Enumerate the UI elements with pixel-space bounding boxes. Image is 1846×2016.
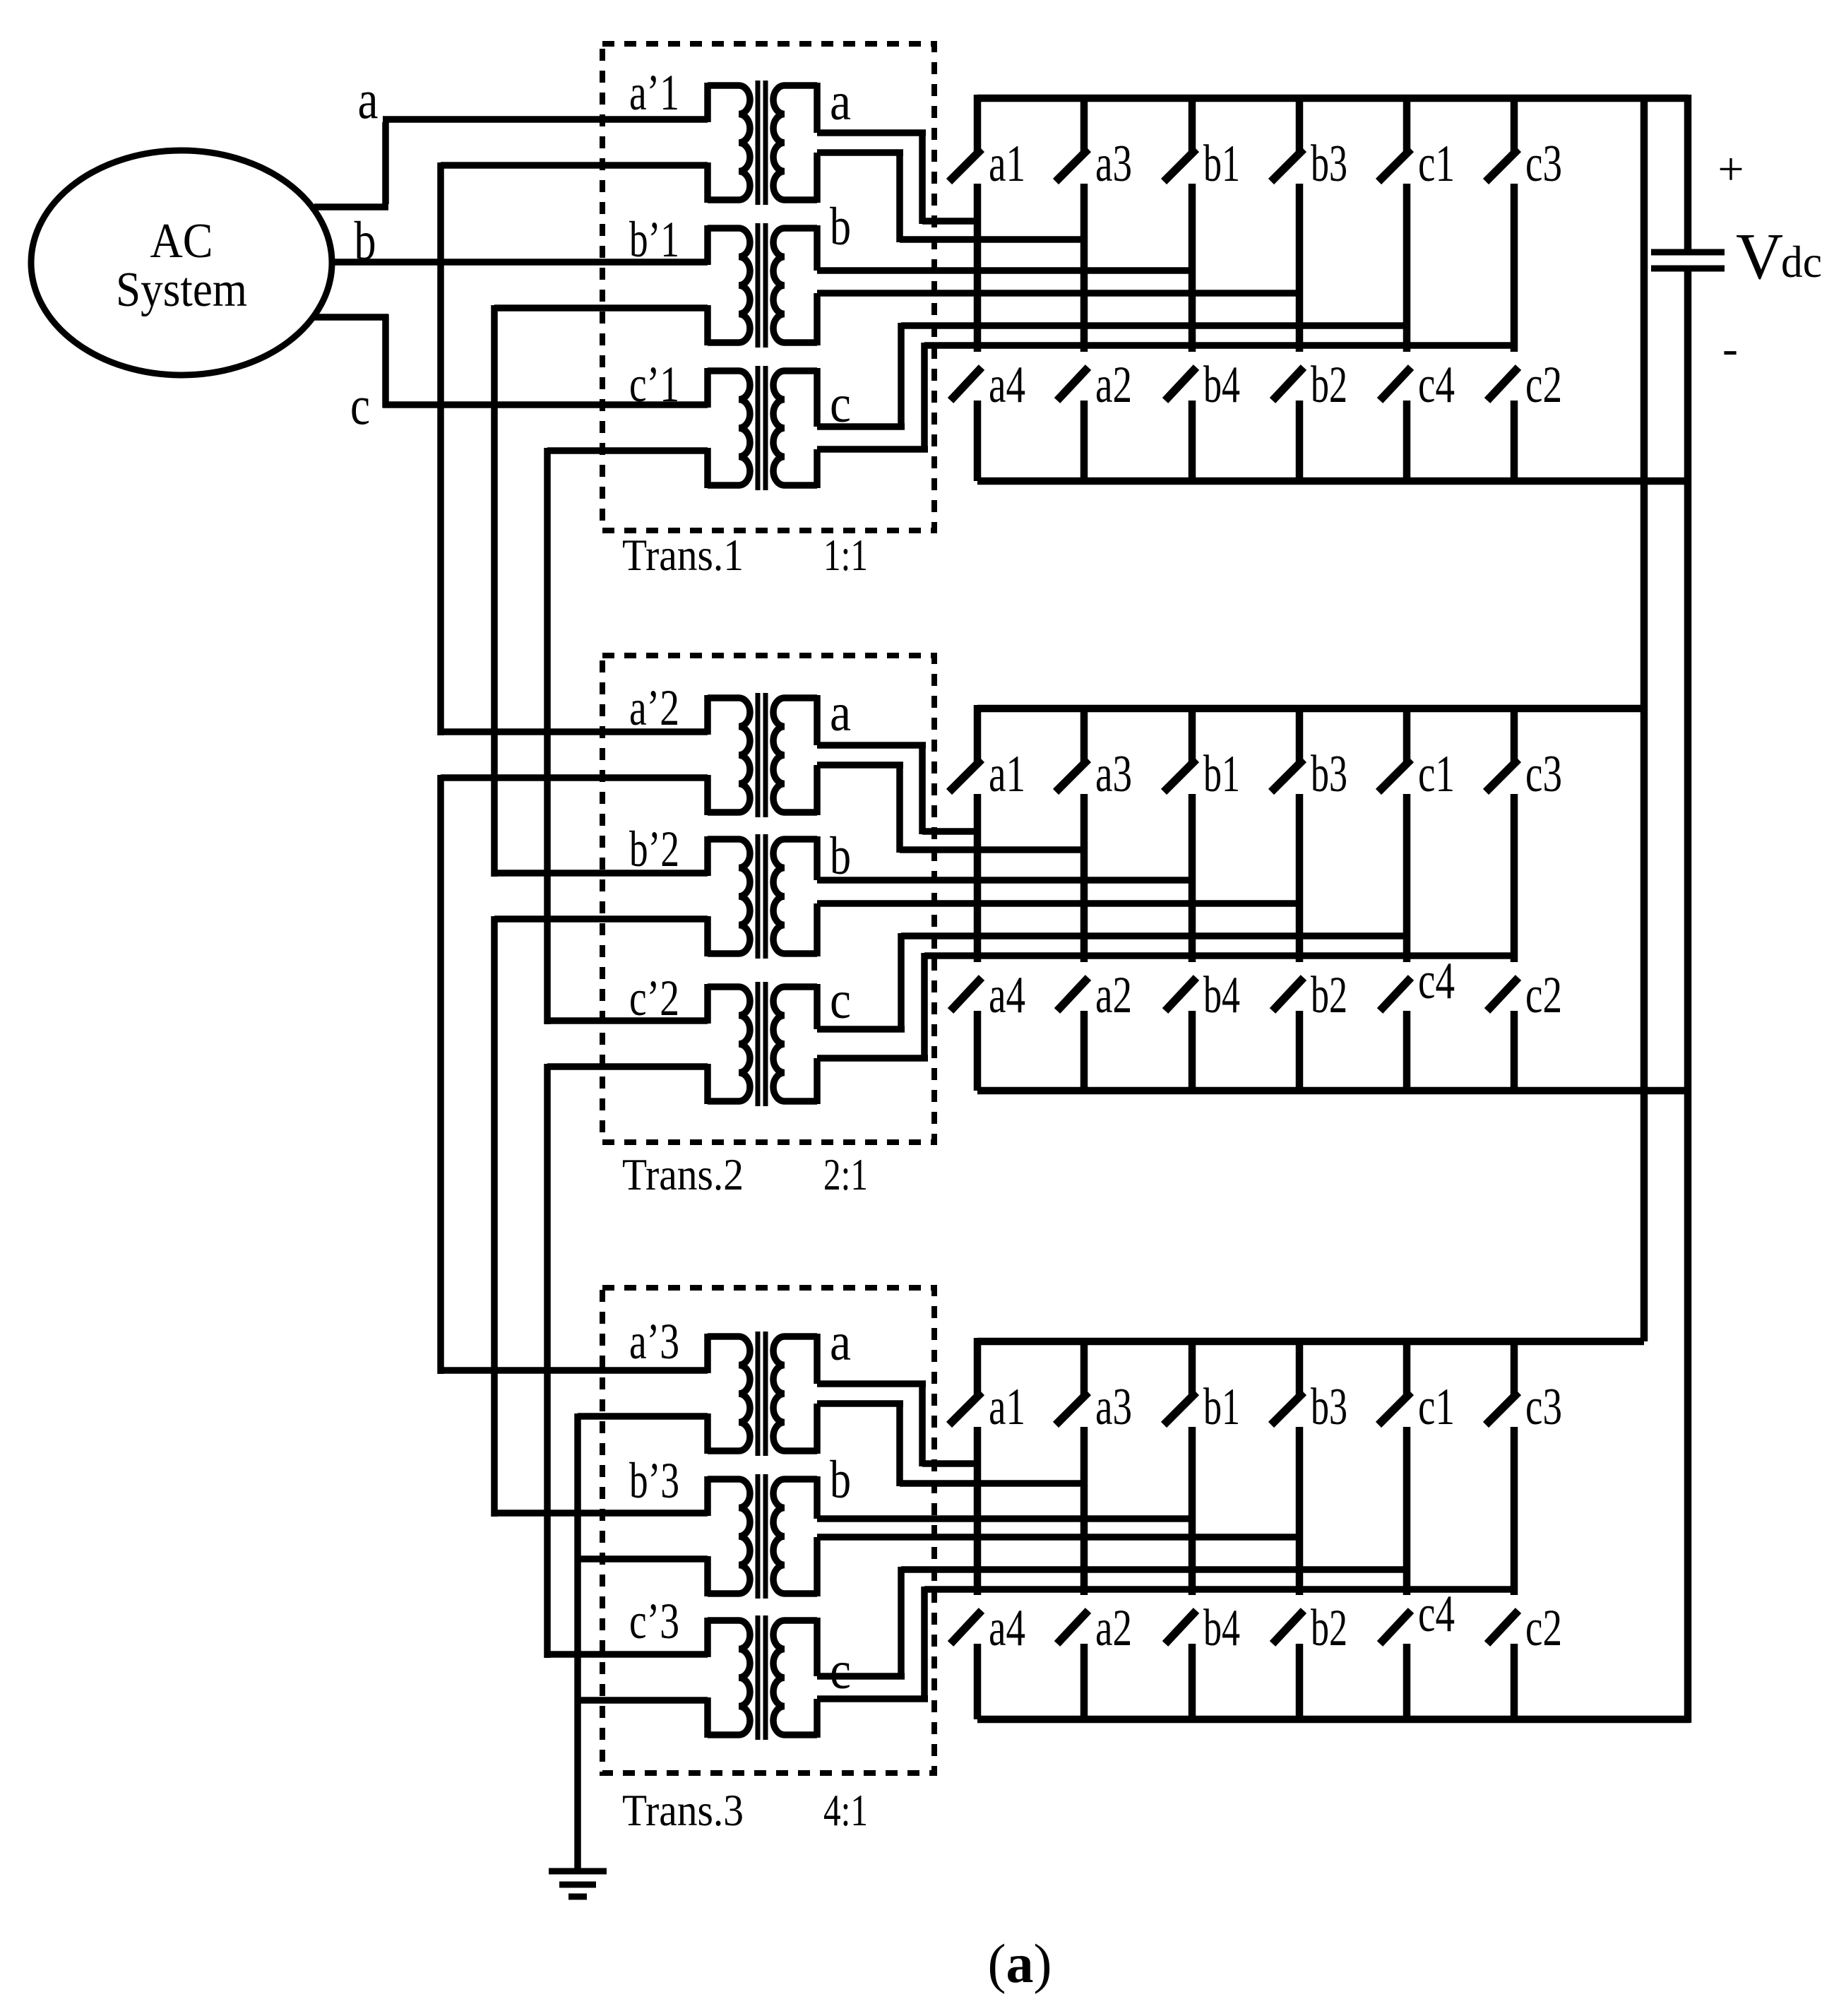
svg-text:c1: c1 xyxy=(1418,745,1455,803)
svg-text:a: a xyxy=(358,69,379,130)
wire phase a to a'1 primary xyxy=(383,116,708,123)
svg-text:a3: a3 xyxy=(1095,745,1132,803)
wire bank2 a secondary bottom to column a3 xyxy=(817,761,903,769)
svg-text:b3: b3 xyxy=(1311,745,1347,803)
svg-text:a: a xyxy=(830,683,851,742)
switch b3 (bank2) xyxy=(1296,705,1304,763)
wire bank3 a secondary bottom to column a3 xyxy=(817,1400,903,1407)
svg-text:-: - xyxy=(1722,323,1738,374)
svg-text:c: c xyxy=(830,1641,851,1700)
svg-text:dc: dc xyxy=(1781,237,1822,287)
svg-text:a4: a4 xyxy=(989,356,1025,414)
switch a3 (bank2) xyxy=(1080,705,1088,763)
transformer T1a core xyxy=(756,81,761,205)
wire b'3 bottom lead to neutral xyxy=(578,1555,708,1563)
transformer T3b core xyxy=(756,1474,761,1599)
switch c2 (bank3) xyxy=(1487,1611,1518,1644)
bank1 positive bus xyxy=(977,95,1688,102)
svg-text:a2: a2 xyxy=(1095,356,1132,414)
svg-text:c’3: c’3 xyxy=(629,1593,679,1649)
switch c3 (bank2) xyxy=(1511,705,1518,763)
Trans.3 dashed box xyxy=(602,1288,934,1773)
wire bank1 b secondary bottom to column b3 xyxy=(817,290,1303,297)
wire b'1 bottom lead xyxy=(494,304,708,312)
transformer T1b core xyxy=(756,223,761,348)
transformer T3c core xyxy=(756,1615,761,1740)
svg-text:c3: c3 xyxy=(1525,745,1562,803)
svg-text:b4: b4 xyxy=(1203,356,1240,414)
transformer T2c secondary winding xyxy=(773,987,785,1101)
wire c'2 to c'3 chain xyxy=(544,1064,551,1658)
wire b'2 to b'3 chain xyxy=(491,916,498,1517)
transformer T2a primary winding xyxy=(739,698,750,812)
svg-text:a3: a3 xyxy=(1095,135,1132,193)
transformer T2a core xyxy=(756,693,761,817)
svg-text:c4: c4 xyxy=(1418,1585,1455,1643)
switch c2 (bank2) xyxy=(1487,978,1518,1011)
wire a'3 top lead xyxy=(441,1367,708,1374)
svg-text:1:1: 1:1 xyxy=(823,530,868,580)
switch c2 (bank1) xyxy=(1487,367,1518,401)
switch b2 (bank2) xyxy=(1273,978,1304,1011)
svg-text:a’2: a’2 xyxy=(629,680,679,736)
svg-text:c: c xyxy=(830,971,851,1030)
wire bank2 b secondary top to column b1 xyxy=(817,877,1196,884)
svg-text:c2: c2 xyxy=(1525,966,1562,1024)
wire b'1 to b'2 chain xyxy=(491,305,498,877)
svg-text:c4: c4 xyxy=(1418,952,1455,1010)
negative rail upper xyxy=(1684,95,1692,252)
switch a1 (bank2) xyxy=(974,705,982,763)
svg-text:a2: a2 xyxy=(1095,1599,1132,1657)
wire bank2 a secondary top to column a1 xyxy=(817,742,926,749)
switch b3 (bank1) xyxy=(1296,95,1304,153)
switch c3 (bank1) xyxy=(1511,95,1518,153)
switch b1 (bank3) xyxy=(1189,1338,1196,1396)
wire bank1 c secondary bottom to column c3 xyxy=(817,446,928,453)
svg-text:c4: c4 xyxy=(1418,356,1455,414)
wire c'1 to c'2 chain xyxy=(544,448,551,1024)
switch b2 (bank3) xyxy=(1273,1611,1304,1644)
transformer T3b primary winding xyxy=(739,1479,750,1594)
switch c1 (bank1) xyxy=(1403,95,1411,153)
svg-text:b’2: b’2 xyxy=(629,821,679,877)
svg-text:V: V xyxy=(1736,220,1783,293)
svg-text:b3: b3 xyxy=(1311,135,1347,193)
wire bank2 c secondary top to column c1 xyxy=(817,1026,905,1033)
svg-text:c3: c3 xyxy=(1525,135,1562,193)
switch a1 (bank3) xyxy=(974,1338,982,1396)
switch b2 (bank1) xyxy=(1273,367,1304,401)
svg-text:b’3: b’3 xyxy=(629,1452,679,1509)
switch c4 (bank2) xyxy=(1380,978,1411,1011)
switch a2 (bank1) xyxy=(1057,367,1088,401)
bank2 negative bus xyxy=(977,1087,1690,1095)
bank2 positive bus xyxy=(977,705,1644,713)
svg-text:a: a xyxy=(830,72,851,131)
transformer T1b primary winding xyxy=(739,228,750,343)
switch b3 (bank3) xyxy=(1296,1338,1304,1396)
switch b4 (bank3) xyxy=(1165,1611,1196,1644)
svg-text:+: + xyxy=(1717,143,1744,195)
transformer T1c primary winding xyxy=(739,371,750,485)
svg-text:c: c xyxy=(350,374,370,436)
wire phase c from AC system xyxy=(314,314,388,321)
wire bank3 b secondary top to column b1 xyxy=(817,1515,1196,1522)
switch c4 (bank1) xyxy=(1380,367,1411,401)
wire c'3 top lead xyxy=(547,1651,708,1658)
bank3 positive bus xyxy=(977,1338,1644,1346)
svg-text:c2: c2 xyxy=(1525,356,1562,414)
svg-text:AC: AC xyxy=(150,214,213,268)
AC system source xyxy=(31,150,332,375)
svg-text:System: System xyxy=(116,263,247,317)
transformer T3c primary winding xyxy=(739,1620,750,1735)
wire a'1 bottom lead xyxy=(441,162,708,169)
svg-text:b1: b1 xyxy=(1203,135,1240,193)
switch b1 (bank2) xyxy=(1189,705,1196,763)
wire bank2 b secondary bottom to column b3 xyxy=(817,900,1303,907)
transformer T2c primary winding xyxy=(739,987,750,1101)
wire a'1 to a'2 chain xyxy=(437,162,444,735)
svg-text:a4: a4 xyxy=(989,1599,1025,1657)
wire bank1 a secondary top to column a1 xyxy=(817,129,926,136)
wire bank1 b secondary top to column b1 xyxy=(817,267,1196,274)
switch c1 (bank2) xyxy=(1403,705,1411,763)
svg-text:c1: c1 xyxy=(1418,135,1455,193)
transformer T3a secondary winding xyxy=(773,1336,785,1451)
svg-text:c3: c3 xyxy=(1525,1378,1562,1436)
svg-text:a1: a1 xyxy=(989,135,1025,193)
wire a'2 to a'3 chain xyxy=(437,775,444,1374)
transformer T1b secondary winding xyxy=(773,228,785,343)
svg-text:b1: b1 xyxy=(1203,1378,1240,1436)
wire b'3 top lead xyxy=(494,1510,708,1517)
wire phase c to c'1 primary xyxy=(383,401,708,408)
capacitor Vdc xyxy=(1651,249,1725,256)
Trans.1 dashed box xyxy=(602,44,934,530)
transformer T2b primary winding xyxy=(739,839,750,954)
switch c4 (bank3) xyxy=(1380,1611,1411,1644)
svg-text:c1: c1 xyxy=(1418,1378,1455,1436)
svg-text:(a): (a) xyxy=(988,1933,1052,1994)
wire a'2 bottom lead xyxy=(441,774,708,781)
transformer T1c core xyxy=(756,366,761,490)
svg-text:4:1: 4:1 xyxy=(823,1786,868,1835)
switch a4 (bank1) xyxy=(951,367,982,401)
svg-text:b1: b1 xyxy=(1203,745,1240,803)
wire bank3 c secondary top to column c1 xyxy=(817,1673,905,1680)
wire b'2 bottom lead xyxy=(494,915,708,923)
transformer T1a primary winding xyxy=(739,85,750,200)
svg-text:b4: b4 xyxy=(1203,1599,1240,1657)
switch a3 (bank1) xyxy=(1080,95,1088,153)
wire c'2 top lead xyxy=(547,1017,708,1024)
switch c3 (bank3) xyxy=(1511,1338,1518,1396)
transformer T1c secondary winding xyxy=(773,371,785,485)
svg-text:a: a xyxy=(830,1312,851,1372)
transformer T2b core xyxy=(756,834,761,959)
transformer T3a primary winding xyxy=(739,1336,750,1451)
wire a'2 top lead xyxy=(441,728,708,735)
svg-text:Trans.1: Trans.1 xyxy=(622,530,744,580)
svg-text:b2: b2 xyxy=(1311,1599,1347,1657)
wire a'3 bottom lead to neutral xyxy=(578,1413,708,1420)
svg-text:a1: a1 xyxy=(989,1378,1025,1436)
wire c'1 bottom lead xyxy=(547,447,708,454)
svg-text:b: b xyxy=(830,197,851,256)
bank3 negative bus xyxy=(977,1716,1690,1724)
svg-text:b: b xyxy=(830,1450,851,1510)
wire bank1 c secondary top to column c1 xyxy=(817,423,905,430)
svg-text:a1: a1 xyxy=(989,745,1025,803)
switch a2 (bank2) xyxy=(1057,978,1088,1011)
switch a4 (bank2) xyxy=(951,978,982,1011)
switch b1 (bank1) xyxy=(1189,95,1196,153)
svg-text:b3: b3 xyxy=(1311,1378,1347,1436)
svg-text:a’3: a’3 xyxy=(629,1313,679,1370)
transformer T2b secondary winding xyxy=(773,839,785,954)
svg-text:Trans.2: Trans.2 xyxy=(622,1150,744,1199)
Trans.2 dashed box xyxy=(602,656,934,1142)
transformer T2c core xyxy=(756,982,761,1106)
switch b4 (bank1) xyxy=(1165,367,1196,401)
switch a4 (bank3) xyxy=(951,1611,982,1644)
transformer T1a secondary winding xyxy=(773,85,785,200)
svg-text:b4: b4 xyxy=(1203,966,1240,1024)
svg-text:a’1: a’1 xyxy=(629,64,679,121)
switch b4 (bank2) xyxy=(1165,978,1196,1011)
svg-text:a2: a2 xyxy=(1095,966,1132,1024)
wire bank1 a secondary bottom to column a3 xyxy=(817,149,903,156)
positive rail xyxy=(1640,98,1648,1341)
negative rail lower xyxy=(1684,268,1692,1723)
wire c'2 bottom lead xyxy=(547,1063,708,1070)
switch a3 (bank3) xyxy=(1080,1338,1088,1396)
svg-text:b2: b2 xyxy=(1311,356,1347,414)
switch c1 (bank3) xyxy=(1403,1338,1411,1396)
svg-text:c2: c2 xyxy=(1525,1599,1562,1657)
wire phase b to b'1 primary xyxy=(332,259,708,266)
neutral wire to ground xyxy=(574,1413,581,1871)
wire bank3 c secondary bottom to column c3 xyxy=(817,1695,928,1702)
wire b'2 top lead xyxy=(494,870,708,877)
svg-text:b’1: b’1 xyxy=(629,211,679,268)
switch a1 (bank1) xyxy=(974,95,982,153)
wire c'3 bottom lead to neutral xyxy=(578,1697,708,1704)
svg-text:2:1: 2:1 xyxy=(823,1150,868,1199)
svg-text:Trans.3: Trans.3 xyxy=(622,1786,744,1835)
wire bank3 a secondary top to column a1 xyxy=(817,1380,926,1387)
bank1 negative bus xyxy=(977,478,1690,485)
transformer T2a secondary winding xyxy=(773,698,785,812)
svg-text:a4: a4 xyxy=(989,966,1025,1024)
switch a2 (bank3) xyxy=(1057,1611,1088,1644)
wire bank3 b secondary bottom to column b3 xyxy=(817,1534,1303,1541)
wire phase a from AC system xyxy=(314,203,388,211)
transformer T3a core xyxy=(756,1332,761,1456)
wire bank2 c secondary bottom to column c3 xyxy=(817,1055,928,1062)
svg-text:b2: b2 xyxy=(1311,966,1347,1024)
ground xyxy=(549,1868,607,1875)
transformer T3c secondary winding xyxy=(773,1620,785,1735)
svg-text:c’1: c’1 xyxy=(629,356,679,413)
svg-text:a3: a3 xyxy=(1095,1378,1132,1436)
transformer T3b secondary winding xyxy=(773,1479,785,1594)
